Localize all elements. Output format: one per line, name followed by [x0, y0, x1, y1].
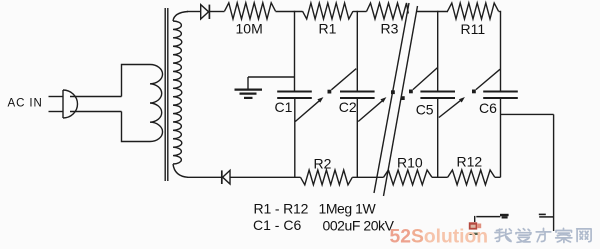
svg-text:002uF 20kV: 002uF 20kV: [323, 217, 395, 233]
svg-text:R1: R1: [319, 20, 337, 36]
svg-text:R10: R10: [397, 154, 423, 170]
resistor R11: [448, 3, 499, 19]
svg-text:C5: C5: [416, 101, 434, 117]
output electrode right stub: [539, 216, 554, 218]
spark gap G3 arrow: [439, 100, 462, 118]
resistor R10: [384, 170, 433, 185]
wire 10M to node A: [276, 11, 303, 13]
wire secondary bottom to diode D2: [187, 176, 221, 178]
wire node A down to C1: [294, 11, 296, 92]
spark gap G3 electrode dot: [472, 90, 476, 94]
wire node C down to C5: [437, 11, 439, 92]
spark gap G1 line to C2: [331, 69, 356, 90]
spark gap G1 electrode dot: [328, 90, 332, 94]
resistor R2: [301, 170, 353, 185]
svg-text:AC IN: AC IN: [8, 98, 43, 110]
wire to red logo: [474, 216, 476, 222]
wire C5 down to bottom rail: [437, 98, 439, 177]
spark gap G2 line to C5: [413, 68, 438, 90]
wire R11 to top right corner: [499, 11, 501, 13]
resistor R12: [448, 170, 495, 185]
break line 1: [374, 3, 409, 193]
capacitor C6: [483, 91, 518, 93]
resistor R1: [303, 3, 354, 19]
resistor R3: [367, 3, 409, 19]
transformer T1 secondary winding: [173, 12, 188, 178]
svg-text:R11: R11: [461, 21, 486, 37]
wire C1 down to bottom rail: [294, 98, 296, 177]
red logo icon base: [469, 233, 478, 235]
wire D1 to resistor 10M: [209, 11, 224, 13]
wire break to node C: [417, 11, 449, 13]
wire plug to transformer upper: [70, 96, 122, 98]
transformer T1 core: [164, 8, 166, 181]
plug prong upper: [49, 96, 64, 98]
svg-text:R1 - R12: R1 - R12: [254, 201, 309, 217]
wire C6 down to bottom rail: [500, 98, 502, 177]
wire node A to ground: [248, 76, 295, 78]
spark gap G1 arrow: [295, 100, 320, 121]
wire top right corner down to C6: [500, 11, 502, 92]
svg-text:10M: 10M: [236, 20, 263, 36]
wire R10 to C5 bottom node: [432, 176, 448, 178]
diode D1: [201, 5, 209, 19]
svg-text:52Solution: 52Solution: [390, 226, 489, 247]
capacitor C5: [420, 91, 455, 93]
wire secondary top to diode D1: [187, 11, 201, 13]
svg-text:C6: C6: [479, 100, 497, 116]
svg-text:R12: R12: [457, 154, 483, 170]
output electrode left blob: [500, 214, 509, 216]
wire D2 to C1 bottom node: [230, 176, 301, 178]
spark gap G2 electrode dot: [409, 90, 413, 94]
svg-text:R2: R2: [314, 156, 332, 172]
spark gap G2 dot on break2: [401, 96, 405, 100]
diode D2: [221, 170, 223, 184]
wire C6 node to output right: [501, 113, 554, 115]
wire plug to transformer lower: [70, 111, 122, 113]
svg-text:1Meg 1W: 1Meg 1W: [319, 201, 377, 217]
wire node B down to C2: [356, 11, 358, 92]
output wire left: [476, 216, 500, 218]
red logo icon right tab: [477, 224, 481, 229]
wire R2 to C2 bottom node: [352, 176, 383, 178]
watermark hanzi 我爱方案网: [495, 228, 591, 242]
resistor 10M: [225, 3, 276, 19]
capacitor C2: [340, 91, 375, 93]
output electrode right dash: [539, 214, 546, 216]
plug prong lower: [49, 111, 64, 113]
svg-text:C1: C1: [275, 99, 293, 115]
spark gap G3 line to C6: [476, 69, 500, 89]
wire C2 down to bottom rail: [356, 98, 358, 177]
svg-text:C1 - C6: C1 - C6: [253, 217, 301, 233]
ground: [235, 77, 263, 98]
red logo icon body: [469, 222, 477, 229]
capacitor C1: [277, 91, 312, 93]
svg-text:R3: R3: [381, 20, 399, 36]
spark gap G2 arrow: [358, 100, 383, 121]
break line 2: [384, 6, 418, 196]
spark gap G2 dot on break1: [391, 90, 395, 94]
transformer T1 primary winding: [122, 65, 163, 142]
wire output right vertical: [553, 114, 555, 231]
wire R1 to node B: [353, 11, 367, 13]
wire R12 to C6 bottom corner: [495, 176, 501, 178]
plug body: [63, 90, 78, 118]
svg-text:C2: C2: [339, 99, 357, 115]
